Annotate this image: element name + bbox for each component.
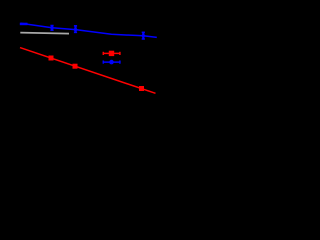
- blue marker at x=143.3: [142, 34, 145, 37]
- blue marker at x=75.5: [74, 28, 77, 31]
- red square marker 3: [139, 86, 144, 91]
- legend blue circle marker: [109, 60, 114, 65]
- legend blue sample line: [103, 61, 120, 64]
- red square marker 2: [73, 64, 78, 69]
- red square marker 1: [49, 56, 54, 61]
- legend red square marker: [109, 51, 114, 56]
- red data line: [20, 48, 156, 94]
- gray reference line: [20, 33, 69, 34]
- blue data line: [21, 23, 157, 37]
- blue error bar at x=143.3: [142, 32, 145, 39]
- background: [0, 0, 165, 116]
- blue error bar at x=75.5: [74, 26, 77, 33]
- blue marker at x=52: [50, 26, 53, 29]
- blue start marker bar: [20, 23, 28, 26]
- legend red sample line: [103, 52, 120, 55]
- blue error bar at x=52: [50, 25, 53, 30]
